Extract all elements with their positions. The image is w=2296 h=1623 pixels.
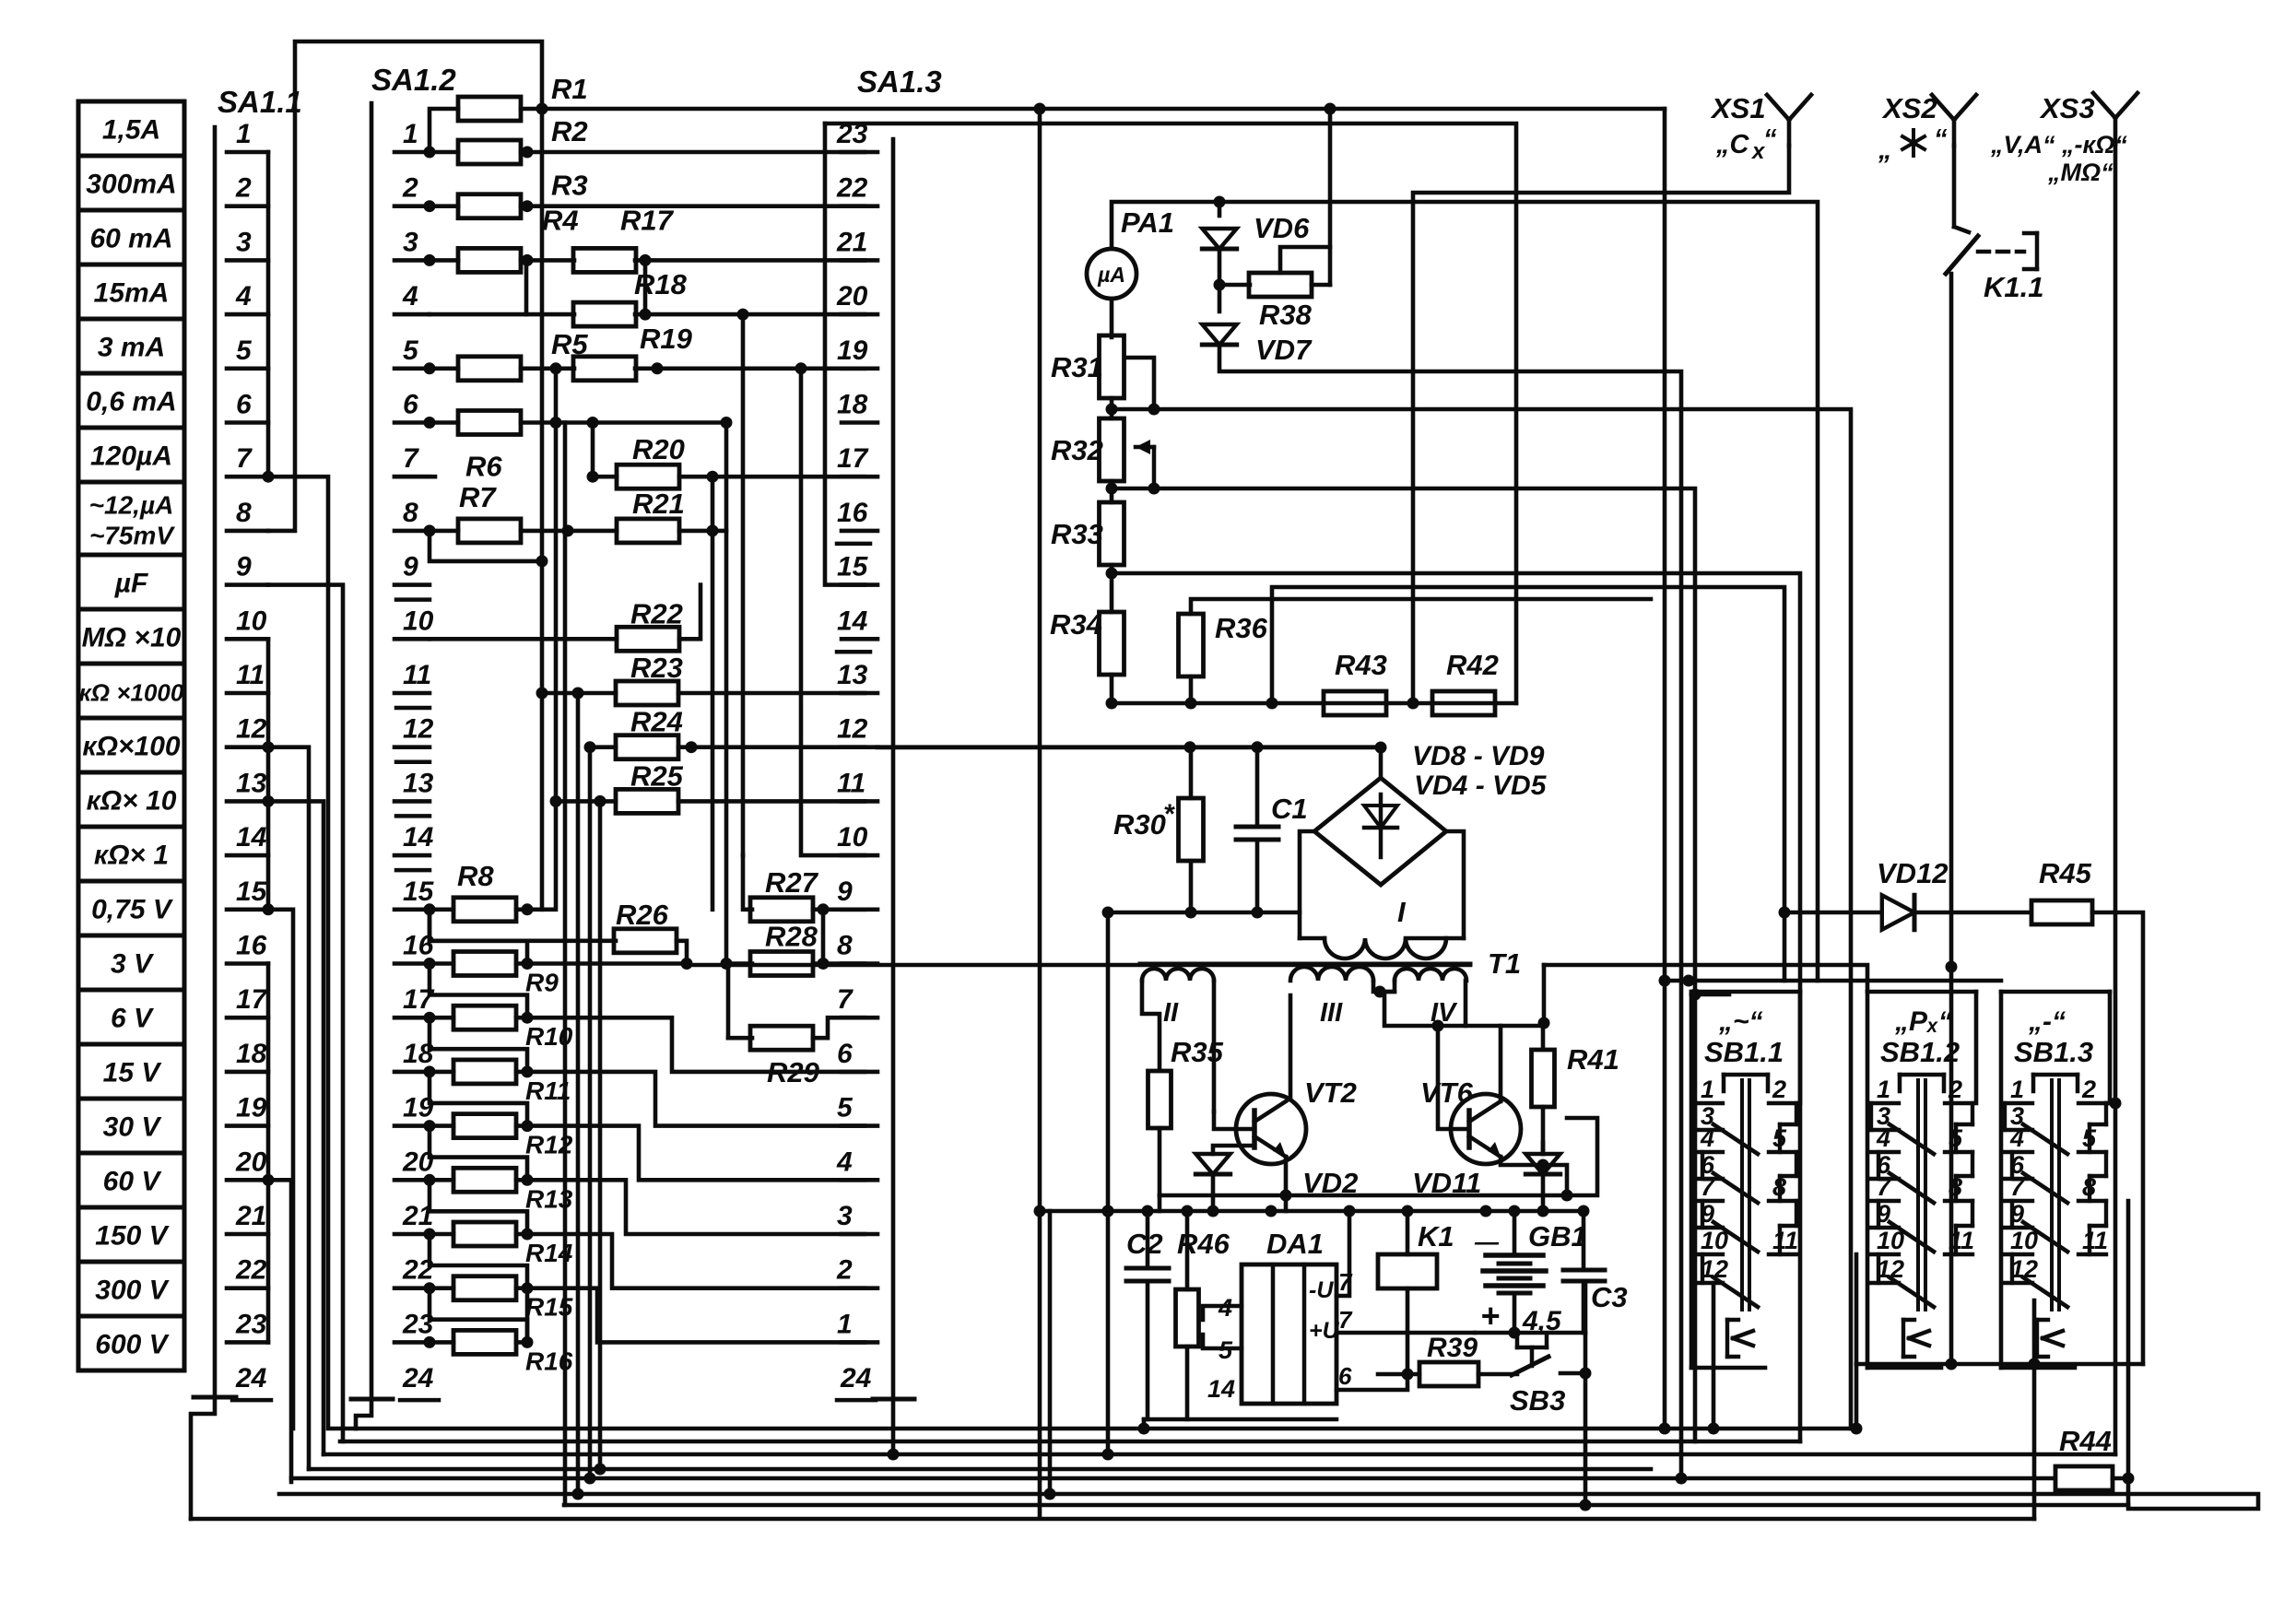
svg-text:SB3: SB3 xyxy=(1510,1384,1565,1417)
svg-text:~12,µA: ~12,µA xyxy=(89,491,174,520)
svg-text:23: 23 xyxy=(235,1309,267,1339)
wire long row y530 xyxy=(1112,488,1695,1441)
wire sub rail 1297 xyxy=(1160,1118,1597,1195)
wire row 8 right part xyxy=(679,529,726,534)
wire VT2 emitter xyxy=(1284,1157,1289,1195)
svg-text:4: 4 xyxy=(235,281,252,312)
svg-text:R34: R34 xyxy=(1050,608,1102,641)
junction 1202 rail990 xyxy=(1102,907,1114,919)
svg-text:13: 13 xyxy=(403,768,434,798)
svg-text:12: 12 xyxy=(236,714,267,745)
wire R29 right hook xyxy=(813,1017,865,1038)
wire winding II right xyxy=(1212,981,1217,1111)
resistor R42 xyxy=(1432,691,1495,715)
svg-text:R9: R9 xyxy=(525,969,559,997)
wire top feed y134 xyxy=(825,123,1516,703)
wire SA1.2 contact 7 stub xyxy=(394,475,435,479)
junction R44 right xyxy=(2123,1473,2135,1485)
svg-text:-U: -U xyxy=(1309,1277,1334,1303)
resistor R36 xyxy=(1179,614,1204,676)
resistor R6 xyxy=(458,411,521,435)
junction rail1314 x1202 xyxy=(1102,1205,1114,1217)
svg-text:VD7: VD7 xyxy=(1255,334,1313,366)
wire R12 left lead xyxy=(430,1123,453,1128)
junction PA1 box top at VD6 xyxy=(1214,196,1226,208)
wire SA1.1 contact 13 down to bus xyxy=(268,801,324,1454)
svg-text:15: 15 xyxy=(403,876,435,907)
svg-text:21: 21 xyxy=(235,1201,266,1231)
switch SA1.3 contact 10 xyxy=(837,822,877,855)
svg-text:K1.1: K1.1 xyxy=(1984,271,2043,303)
svg-text:18: 18 xyxy=(236,1039,267,1069)
junction R1 right node xyxy=(536,103,548,115)
svg-text:VD6: VD6 xyxy=(1254,212,1310,244)
junction SA1.2 contact 17 xyxy=(424,1012,436,1024)
capacitor C1 xyxy=(1236,827,1278,840)
junction bridge top xyxy=(1375,742,1387,754)
switch SA1.3 contact 12 xyxy=(837,714,877,747)
svg-text:III: III xyxy=(1320,998,1343,1028)
switch SA1.3 contact 5 xyxy=(837,1093,877,1126)
junction 2207 y1480 xyxy=(2029,1358,2041,1370)
resistor R33 xyxy=(1100,502,1124,565)
range box MΩ ×10 xyxy=(78,609,184,664)
range box 15 V xyxy=(78,1044,184,1099)
svg-text:+: + xyxy=(1480,1297,1500,1335)
svg-text:21: 21 xyxy=(836,227,867,257)
switch SA1.1 contact 8 xyxy=(227,498,268,531)
switch SA1.1 contact 19 xyxy=(227,1093,268,1126)
wire R13 left lead xyxy=(430,1178,453,1182)
svg-text:12: 12 xyxy=(837,714,868,745)
svg-text:II: II xyxy=(1163,998,1179,1028)
socket XS3 xyxy=(2093,93,2137,144)
resistor R30 xyxy=(1179,798,1204,861)
svg-text:24: 24 xyxy=(840,1363,872,1394)
svg-text:кΩ× 10: кΩ× 10 xyxy=(87,786,177,817)
wire row 18 staircase to SA1.3 contact 5 xyxy=(527,1072,865,1126)
svg-text:7: 7 xyxy=(236,443,253,474)
wire R26 input loop xyxy=(430,910,616,941)
wire R38 right riser xyxy=(1328,109,1333,285)
junction R33 bottom xyxy=(1106,568,1118,580)
wire R42 right lead xyxy=(1495,701,1516,706)
svg-text:10: 10 xyxy=(403,606,434,636)
wire riser row6-row7 xyxy=(591,423,595,477)
wire VT6 emitter xyxy=(1501,1157,1567,1195)
wire row 20 staircase to SA1.3 contact 3 xyxy=(527,1180,865,1234)
junction row1 at vertical 1128 xyxy=(1034,103,1046,115)
svg-text:R28: R28 xyxy=(765,921,818,953)
wire SA1.1 bracket contacts 16-23 xyxy=(266,964,271,1343)
wire row 8 left lead xyxy=(430,529,458,534)
wire SB1.3 pin2 to XS3 xyxy=(2106,1101,2115,1106)
switch SA1.1 contact 17 xyxy=(227,984,268,1017)
svg-text:6: 6 xyxy=(837,1039,853,1069)
junction rail1314 x1245 xyxy=(1142,1205,1154,1217)
wire R38 left lead xyxy=(1219,283,1250,288)
svg-text:MΩ ×10: MΩ ×10 xyxy=(82,623,182,653)
switch SA1.3 contact 15 xyxy=(837,552,877,585)
wire VT6 collector xyxy=(1499,1026,1503,1101)
wire XS1 to rail riser xyxy=(1413,146,1789,703)
range box 600 V xyxy=(78,1316,184,1370)
svg-text:DA1: DA1 xyxy=(1266,1228,1324,1260)
junction R32 bottom xyxy=(1106,483,1118,495)
junction row1 at vertical 1443 xyxy=(1325,103,1336,115)
svg-text:18: 18 xyxy=(837,390,868,420)
junction rail1314 x1718 xyxy=(1578,1205,1590,1217)
junction rail at 1380 xyxy=(1266,698,1278,710)
junction R17 right xyxy=(640,254,652,266)
wire R26 output xyxy=(677,941,687,964)
svg-text:R35: R35 xyxy=(1171,1036,1224,1068)
wire row 12 right part xyxy=(678,745,865,749)
svg-text:R31: R31 xyxy=(1051,351,1103,383)
range box ~12,µA xyxy=(78,482,184,555)
junction riser651 row13 xyxy=(595,795,606,807)
svg-text:19: 19 xyxy=(236,1093,267,1123)
svg-text:R38: R38 xyxy=(1259,299,1313,331)
svg-text:1: 1 xyxy=(1701,1076,1714,1103)
socket XS1 xyxy=(1767,95,1811,146)
wire R16 right lead xyxy=(516,1340,527,1345)
resistor R39 xyxy=(1419,1362,1478,1386)
switch SA1.2 contact 22 xyxy=(394,1255,434,1288)
junction R18 right xyxy=(640,309,652,321)
switch SA1.1 contact 16 xyxy=(227,931,268,964)
junction SA1.2 contact 1 xyxy=(424,147,436,159)
junction SA1.2 contact 16 xyxy=(424,958,436,970)
svg-text:7: 7 xyxy=(837,984,854,1015)
svg-text:11: 11 xyxy=(1949,1227,1974,1254)
junction SA1.2 contact 18 xyxy=(424,1065,436,1077)
resistor R34 xyxy=(1100,612,1124,675)
junction Z link row 21 xyxy=(522,1229,534,1241)
wire R15 left lead xyxy=(430,1286,453,1290)
range box 6 V xyxy=(78,990,184,1044)
switch SA1.3 moving contact bar xyxy=(873,1397,914,1402)
wire SA1.1 contact 20 down to bus xyxy=(268,1180,291,1482)
svg-text:20: 20 xyxy=(836,281,868,312)
svg-text:SB1.2: SB1.2 xyxy=(1880,1036,1960,1068)
svg-text:23: 23 xyxy=(836,119,868,149)
wire VD7 bottom xyxy=(1219,345,1681,1478)
junction Zlink8 riser588 xyxy=(536,555,548,567)
switch SA1.2 contact 4 xyxy=(394,281,430,314)
svg-text:2: 2 xyxy=(1772,1076,1786,1103)
switch SA1.2 contact 18 xyxy=(394,1039,434,1072)
svg-text:14: 14 xyxy=(1207,1375,1235,1403)
junction R36 rail xyxy=(1185,698,1197,710)
wire R16 right hook up xyxy=(525,1288,530,1343)
range box 0,75 V xyxy=(78,881,184,935)
svg-text:60 V: 60 V xyxy=(103,1167,163,1197)
svg-text:R2: R2 xyxy=(551,115,588,147)
svg-text:„MΩ“: „MΩ“ xyxy=(2047,159,2113,186)
wire VT2 emitter to rail xyxy=(1284,1195,1289,1211)
wire C1 top xyxy=(1255,747,1260,827)
wire Z link contact 21 to row 22 xyxy=(430,1234,527,1288)
svg-text:кΩ ×1000: кΩ ×1000 xyxy=(79,679,184,707)
wire SA1.1 contact 8 to top loop xyxy=(268,41,542,531)
wire riser 773 xyxy=(711,476,715,910)
junction Z link row 20 xyxy=(522,1174,534,1186)
svg-text:кΩ×100: кΩ×100 xyxy=(82,732,181,762)
resistor R11 xyxy=(453,1060,516,1084)
wire riser 651 to B4 xyxy=(598,801,603,1469)
svg-text:“: “ xyxy=(1934,124,1948,154)
wire R46 bottom xyxy=(1185,1347,1190,1419)
svg-text:R21: R21 xyxy=(632,488,685,520)
wire rail drop 1139 xyxy=(1048,1211,1053,1494)
wire SA1.1 contact 15 down to bus xyxy=(268,910,293,1429)
switch SA1.2 contact 19 xyxy=(394,1093,434,1126)
wire Z link contact 18 to row 19 xyxy=(430,1072,527,1126)
range box 60 mA xyxy=(78,210,184,265)
junction R3 right xyxy=(522,200,534,212)
pushbutton SB3 xyxy=(1512,1336,1585,1375)
range box 300mA xyxy=(78,156,184,210)
range box 1,5A xyxy=(78,101,184,156)
wire R8 right lead xyxy=(516,907,527,911)
capacitor C3 xyxy=(1563,1270,1605,1281)
wire R39 left xyxy=(1378,1372,1419,1377)
switch SA1.3 wiper line xyxy=(891,139,896,1399)
SA1.3 contact 16 underline xyxy=(837,542,870,547)
junction SA1.1 contact 7 xyxy=(263,471,275,483)
svg-text:14: 14 xyxy=(837,606,868,636)
switch SA1.3 contact 7 xyxy=(837,984,877,1017)
junction VT6 emitter VD11 xyxy=(1537,1159,1549,1171)
wire row 22 staircase to SA1.3 contact 1 xyxy=(527,1288,865,1343)
svg-text:17: 17 xyxy=(837,443,869,474)
svg-text:150 V: 150 V xyxy=(95,1221,170,1252)
wire R12 right lead xyxy=(516,1123,527,1128)
switch SA1.3 contact 11 xyxy=(837,768,877,801)
resistor R22 xyxy=(617,627,679,651)
wire DA1 pin6 xyxy=(1336,1374,1407,1390)
wire riser 613 to B7 xyxy=(563,423,568,1506)
junction Z link row 17 xyxy=(522,1012,534,1024)
svg-text:C1: C1 xyxy=(1271,793,1308,825)
switch SA1.1 contact 18 xyxy=(227,1039,268,1072)
resistor R45 xyxy=(2031,900,2092,924)
wire 1297 drop at 1258 xyxy=(1158,1195,1162,1211)
wire Z link contact 22 to row 23 xyxy=(430,1288,527,1343)
range box 300 V xyxy=(78,1262,184,1316)
svg-text:5: 5 xyxy=(236,335,253,366)
switch SA1.2 wiper line xyxy=(370,103,374,1399)
wire R1 left lead xyxy=(430,109,458,152)
wire SA1.1 contact 12 down to bus xyxy=(268,747,309,1469)
switch SA1.1 contact 7 xyxy=(227,443,268,476)
relay contact K1.1 xyxy=(1946,227,2037,274)
wire DA1 bottom to bus xyxy=(1142,1419,1147,1429)
wire XS3 vertical xyxy=(2113,144,2118,1454)
pushbutton switch SB1.1 xyxy=(1691,992,1800,1368)
svg-text:1: 1 xyxy=(2010,1076,2024,1103)
svg-text:16: 16 xyxy=(837,498,868,528)
switch SA1.2 contact 11 xyxy=(394,660,431,693)
junction y530 at 1252 xyxy=(1148,483,1160,495)
range box 3 mA xyxy=(78,319,184,373)
svg-text:3 V: 3 V xyxy=(111,949,155,980)
switch SA1.3 contact 6 xyxy=(837,1039,877,1072)
wire row 3 through R17 xyxy=(521,258,574,263)
wire row 11 xyxy=(542,691,616,696)
wire R31 tap xyxy=(1124,358,1154,409)
junction SA1.1 contact 15 xyxy=(263,903,275,915)
resistor R14 xyxy=(453,1222,516,1246)
wire row12 extension to bridge xyxy=(877,745,1381,749)
junction subrail VT2e xyxy=(1280,1190,1292,1202)
svg-text:3: 3 xyxy=(837,1201,853,1231)
resistor R35 xyxy=(1148,1071,1172,1128)
svg-text:60 mA: 60 mA xyxy=(89,224,172,254)
wire R13 right lead xyxy=(516,1178,527,1182)
junction Z link row 23 xyxy=(522,1336,534,1348)
wire row 14 corner xyxy=(801,369,865,855)
svg-text:R3: R3 xyxy=(551,170,588,202)
junction VD12 wire xyxy=(1779,907,1791,919)
junction 1202 B3 xyxy=(1102,1449,1114,1461)
svg-text:~75mV: ~75mV xyxy=(89,522,175,550)
junction 1720 B7 xyxy=(1580,1500,1592,1511)
junction rail1314 x1674 xyxy=(1537,1205,1549,1217)
junction XS3 SB1.3 pin2 xyxy=(2110,1098,2122,1110)
switch SA1.1 moving contact bar xyxy=(194,1395,236,1400)
wire SB1.3 left outer riser xyxy=(2032,1300,2037,1519)
wire DA1 pin5 xyxy=(1203,1335,1242,1348)
wire row 1 right part xyxy=(521,150,865,155)
range box кΩ ×1000 xyxy=(78,664,184,718)
wire winding IV right lead xyxy=(1464,981,1468,1026)
svg-text:300mA: 300mA xyxy=(86,170,176,200)
wire R16 left lead xyxy=(430,1340,453,1345)
svg-text:8: 8 xyxy=(236,498,252,528)
svg-text:VT6: VT6 xyxy=(1420,1076,1474,1109)
wire Z link contact 20 to row 21 xyxy=(430,1180,527,1234)
wire upper rail 811 xyxy=(877,746,1381,750)
junction row12 R30 xyxy=(1184,741,1196,753)
SA1.2 contact 14 underline xyxy=(396,868,430,873)
junction row6 at 643 xyxy=(587,417,599,429)
junction SA1.2 contact 22 xyxy=(424,1282,436,1294)
junction row12 at 640 xyxy=(584,741,596,753)
wire top feed y118 right part xyxy=(1663,109,1667,1429)
wire row 12 xyxy=(590,745,616,749)
svg-text:19: 19 xyxy=(837,335,868,366)
transformer winding II xyxy=(1142,969,1214,981)
svg-text:24: 24 xyxy=(402,1363,434,1394)
junction rail1314 x1612 xyxy=(1480,1205,1492,1217)
range box кΩ× 10 xyxy=(78,772,184,827)
junction row12 at 713 xyxy=(686,741,698,753)
junction XS2 SB feed xyxy=(1946,961,1958,973)
junction rail1314 x1643 xyxy=(1509,1205,1521,1217)
diode VD11 xyxy=(1525,1154,1560,1174)
wire row 13 xyxy=(556,799,616,804)
switch SA1.3 contact 2 xyxy=(836,1255,877,1288)
junction R41 top 1108 xyxy=(1538,1017,1550,1029)
junction riser651 B4 xyxy=(595,1464,606,1476)
switch SA1.1 contact 21 xyxy=(227,1201,268,1234)
junction SB feed 1832 xyxy=(1683,975,1695,987)
svg-text:R43: R43 xyxy=(1335,649,1387,681)
wire C3 top xyxy=(1582,1211,1586,1270)
wire SA1.2 wiper to bottom bus xyxy=(356,1399,371,1429)
svg-text:PA1: PA1 xyxy=(1121,206,1174,239)
wire C2 top xyxy=(1146,1211,1150,1268)
wire VD6 top lead xyxy=(1218,202,1222,216)
resistor R21 xyxy=(617,519,679,543)
wire SA1.2 contact 4 hook xyxy=(430,260,526,314)
junction Z link row 19 xyxy=(522,1120,534,1132)
svg-text:600 V: 600 V xyxy=(95,1330,170,1360)
wire row 2 left lead xyxy=(430,204,458,208)
wire riser 640 to B5 xyxy=(588,747,593,1478)
resistor R25 xyxy=(616,789,678,813)
switch SA1.3 contact 23 xyxy=(836,119,877,152)
switch SA1.1 wiper line xyxy=(213,127,218,1397)
junction VD6 VD7 R38 xyxy=(1214,279,1226,291)
switch SA1.3 contact 4 xyxy=(836,1147,877,1180)
junction row13 at 603 xyxy=(550,795,562,807)
junction rail1314 x1527 xyxy=(1402,1205,1414,1217)
svg-text:R26: R26 xyxy=(616,899,669,931)
junction SA1.2 contact 6 xyxy=(424,417,436,429)
switch SA1.2 contact 7 xyxy=(394,443,430,476)
junction row11 at 627 xyxy=(572,688,584,700)
wire VT6 base lead xyxy=(1438,1026,1469,1129)
switch SA1.2 contact 15 xyxy=(394,876,435,910)
svg-text:SA1.3: SA1.3 xyxy=(857,65,942,99)
resistor R44 xyxy=(2055,1466,2113,1490)
svg-text:R17: R17 xyxy=(620,204,675,236)
svg-text:R8: R8 xyxy=(457,860,494,892)
switch SA1.2 contact 3 xyxy=(394,227,430,260)
junction SA1.2 contact 8 xyxy=(424,524,436,536)
junction 1806 w1064 xyxy=(1659,975,1671,987)
switch SA1.1 contact 23 xyxy=(227,1309,268,1342)
junction windings III-IV xyxy=(1374,986,1386,998)
transformer T1 core line xyxy=(1140,962,1470,967)
wire row 5 left lead xyxy=(430,366,458,370)
bus wire B7 xyxy=(564,1503,2128,1508)
diode VD2 xyxy=(1195,1154,1230,1174)
bus wire B5 through R44 xyxy=(291,1476,2054,1481)
junction rail990 R30 xyxy=(1185,907,1197,919)
wire SB feed 1079 xyxy=(1695,993,1729,997)
wire winding I right xyxy=(1406,936,1464,941)
svg-text:2: 2 xyxy=(836,1255,853,1286)
svg-text:3: 3 xyxy=(236,227,252,257)
range box 120µA xyxy=(78,428,184,482)
switch SA1.2 contact 12 xyxy=(394,714,434,747)
svg-text:15mA: 15mA xyxy=(94,278,170,309)
SA1.2 contact 9 underline extra xyxy=(396,597,430,602)
junction battery bottom xyxy=(1509,1327,1521,1339)
switch SA1.2 contact 23 xyxy=(394,1309,434,1342)
junction 1806 B1 xyxy=(1659,1423,1671,1435)
junction Z link row 22 xyxy=(522,1282,534,1294)
junction 1824 B5 xyxy=(1676,1473,1688,1485)
svg-text:16: 16 xyxy=(236,931,267,961)
resistor R12 xyxy=(453,1114,516,1138)
switch SA1.1 contact 1 xyxy=(227,119,268,152)
wire winding IV box xyxy=(1384,992,1543,1047)
